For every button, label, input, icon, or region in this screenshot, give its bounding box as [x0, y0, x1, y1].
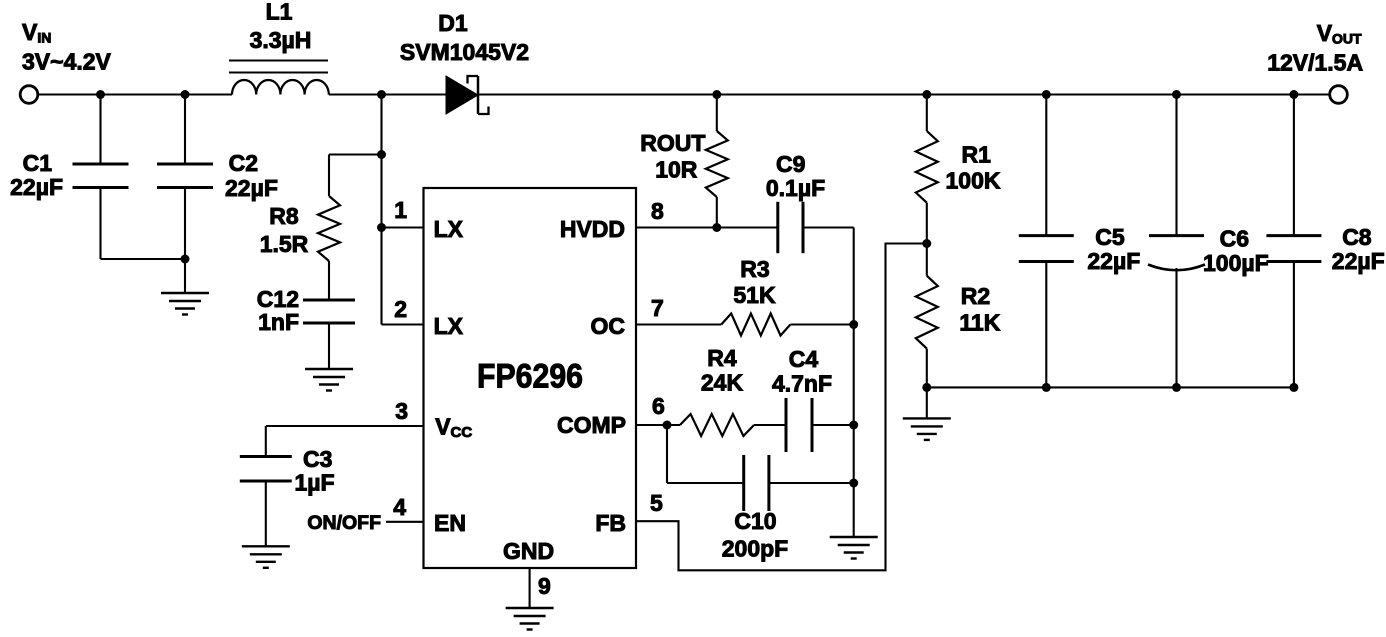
- svg-text:LX: LX: [434, 216, 464, 242]
- svg-text:R8: R8: [269, 203, 299, 229]
- svg-text:FB: FB: [595, 510, 626, 536]
- svg-text:ROUT: ROUT: [640, 130, 705, 156]
- svg-text:22µF: 22µF: [225, 175, 278, 201]
- svg-text:4: 4: [393, 494, 406, 520]
- svg-text:C1: C1: [23, 150, 53, 176]
- svg-text:L1: L1: [266, 0, 293, 25]
- svg-text:SVM1045V2: SVM1045V2: [400, 39, 529, 65]
- svg-text:EN: EN: [434, 510, 466, 536]
- svg-text:3V~4.2V: 3V~4.2V: [22, 49, 112, 75]
- svg-text:5: 5: [650, 490, 663, 516]
- svg-text:VCC: VCC: [435, 414, 472, 442]
- svg-text:22µF: 22µF: [10, 174, 63, 200]
- svg-text:7: 7: [651, 295, 664, 321]
- svg-text:R2: R2: [961, 283, 990, 309]
- svg-text:2: 2: [394, 296, 407, 322]
- svg-text:GND: GND: [503, 538, 554, 564]
- svg-text:R4: R4: [707, 345, 737, 371]
- svg-text:1: 1: [394, 197, 407, 223]
- svg-text:C8: C8: [1342, 224, 1372, 250]
- svg-text:9: 9: [538, 573, 551, 599]
- svg-text:12V/1.5A: 12V/1.5A: [1267, 50, 1363, 76]
- svg-text:VIN: VIN: [22, 19, 51, 46]
- svg-text:6: 6: [652, 393, 665, 419]
- svg-text:FP6296: FP6296: [477, 358, 583, 396]
- svg-text:1.5R: 1.5R: [260, 231, 309, 257]
- svg-text:VOUT: VOUT: [1317, 20, 1362, 47]
- svg-text:24K: 24K: [701, 370, 744, 396]
- svg-text:C4: C4: [789, 346, 819, 372]
- svg-text:1µF: 1µF: [295, 470, 335, 496]
- svg-text:COMP: COMP: [557, 412, 626, 438]
- svg-text:LX: LX: [434, 313, 464, 339]
- svg-text:C10: C10: [734, 508, 776, 534]
- svg-text:0.1µF: 0.1µF: [766, 175, 825, 201]
- svg-text:D1: D1: [438, 10, 468, 36]
- svg-text:22µF: 22µF: [1087, 248, 1140, 274]
- svg-text:4.7nF: 4.7nF: [772, 371, 832, 397]
- svg-text:22µF: 22µF: [1332, 248, 1385, 274]
- svg-text:200pF: 200pF: [722, 536, 788, 562]
- svg-text:3.3µH: 3.3µH: [250, 27, 312, 53]
- svg-text:100K: 100K: [946, 168, 1001, 194]
- svg-text:OC: OC: [591, 313, 626, 339]
- svg-text:C3: C3: [303, 446, 332, 472]
- svg-text:11K: 11K: [959, 310, 1000, 336]
- svg-text:ON/OFF: ON/OFF: [307, 512, 381, 534]
- svg-text:8: 8: [651, 198, 664, 224]
- svg-text:R1: R1: [962, 142, 992, 168]
- svg-text:1nF: 1nF: [258, 309, 299, 335]
- svg-text:10R: 10R: [655, 157, 698, 183]
- svg-text:HVDD: HVDD: [560, 216, 625, 242]
- svg-text:3: 3: [395, 398, 408, 424]
- svg-text:C5: C5: [1095, 224, 1125, 250]
- svg-text:C9: C9: [776, 151, 805, 177]
- svg-text:C6: C6: [1220, 226, 1249, 252]
- svg-text:R3: R3: [740, 256, 769, 282]
- svg-text:100µF: 100µF: [1203, 250, 1269, 276]
- svg-text:51K: 51K: [733, 282, 776, 308]
- svg-text:C2: C2: [229, 150, 258, 176]
